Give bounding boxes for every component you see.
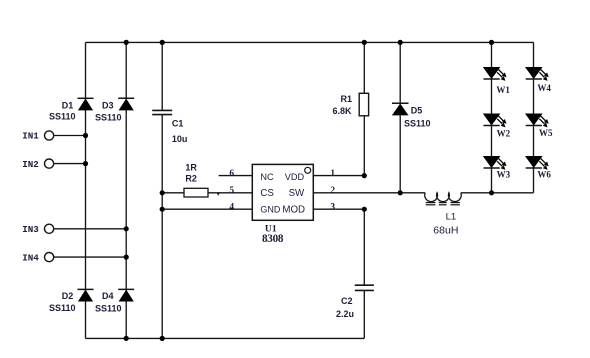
wire R1 column lower	[363, 116, 365, 176]
port IN3	[45, 224, 54, 233]
node top rail / D3	[124, 40, 129, 45]
svg-text:IN4: IN4	[22, 252, 39, 263]
node bottom rail / D4	[124, 336, 129, 341]
wire LED bottom link	[492, 192, 534, 194]
svg-text:2: 2	[330, 186, 335, 196]
svg-text:NC: NC	[260, 172, 274, 182]
svg-text:R2: R2	[185, 174, 197, 184]
node R2 / C1 column	[160, 190, 165, 195]
svg-text:SS110: SS110	[95, 304, 122, 314]
node IN4 / D4 column	[124, 255, 129, 260]
node SW / D5 / L1	[398, 190, 403, 195]
svg-text:R1: R1	[340, 94, 352, 104]
port IN4	[45, 253, 54, 262]
wire R1 column upper	[363, 42, 365, 93]
svg-text:W4: W4	[537, 83, 551, 93]
svg-text:GND: GND	[260, 205, 281, 215]
pin VDD indicator circle	[305, 167, 311, 173]
diode D1	[78, 98, 94, 110]
port IN1	[45, 131, 54, 140]
node top rail / C1	[160, 40, 165, 45]
svg-text:IN3: IN3	[22, 224, 39, 235]
LED W1	[483, 67, 507, 81]
wire pin5	[208, 192, 252, 194]
svg-text:D4: D4	[102, 291, 114, 301]
svg-text:D3: D3	[102, 101, 114, 111]
resistor R2	[184, 188, 208, 197]
wire C1 column upper	[161, 42, 163, 110]
svg-text:5: 5	[229, 186, 234, 196]
inductor L1	[425, 193, 462, 205]
diode D5	[392, 103, 409, 115]
svg-text:SS110: SS110	[95, 112, 122, 122]
svg-text:SS110: SS110	[49, 112, 76, 122]
node L1 / LED A	[489, 190, 494, 195]
op-amp U1 (IC 8308)	[252, 164, 313, 220]
port IN2	[45, 159, 54, 168]
svg-text:W3: W3	[497, 170, 511, 180]
wire C2 column lower	[363, 290, 365, 338]
svg-text:MOD: MOD	[282, 205, 305, 216]
svg-text:8308: 8308	[262, 233, 284, 245]
node top rail / D5	[398, 40, 403, 45]
wire L1 left lead	[400, 192, 425, 194]
svg-text:W5: W5	[539, 128, 553, 138]
svg-text:W1: W1	[496, 85, 510, 95]
node top rail / LED A	[489, 40, 494, 45]
svg-text:SW: SW	[289, 188, 305, 199]
wire D5 column lower	[399, 115, 401, 192]
wire IN1	[54, 135, 86, 137]
capacitor C1	[152, 110, 172, 114]
LED W4	[525, 67, 549, 81]
svg-text:68uH: 68uH	[433, 225, 458, 237]
wire pin3	[313, 208, 364, 210]
svg-text:SS110: SS110	[404, 118, 431, 128]
svg-text:IN2: IN2	[22, 159, 39, 170]
svg-text:IN1: IN1	[22, 131, 39, 142]
LED W6	[525, 156, 549, 170]
wire pin4	[162, 208, 252, 210]
node IN3 / D3 column	[124, 226, 129, 231]
LED W2	[483, 114, 507, 128]
wire bottom rail	[86, 337, 365, 339]
svg-text:4: 4	[229, 203, 234, 213]
svg-text:10u: 10u	[172, 134, 188, 144]
node pin4 / C1 column	[160, 207, 165, 212]
node pin3 / C2	[362, 207, 367, 212]
node top rail / R1	[362, 40, 367, 45]
resistor R1	[359, 93, 368, 116]
svg-text:6.8K: 6.8K	[332, 106, 352, 116]
svg-text:VDD: VDD	[285, 172, 305, 182]
LED W5	[525, 114, 549, 128]
node bottom rail / C1	[160, 336, 165, 341]
wire left bus	[85, 42, 87, 338]
LED W3	[483, 156, 507, 170]
wire R2 left	[162, 192, 184, 194]
svg-text:1R: 1R	[185, 162, 197, 172]
wire LED column B	[533, 42, 535, 192]
diode D4	[118, 289, 134, 301]
svg-text:C2: C2	[341, 296, 353, 306]
svg-text:6: 6	[229, 169, 234, 179]
wire pin6 stub	[219, 175, 253, 177]
wire D5 column upper	[399, 42, 401, 103]
svg-text:W6: W6	[537, 170, 551, 180]
wire pin1	[313, 175, 364, 177]
wire IN4	[54, 256, 127, 258]
wire L1 right lead	[461, 192, 492, 194]
wire C2 column upper	[363, 209, 365, 285]
svg-text:SS110: SS110	[49, 303, 76, 313]
wire LED column A	[491, 42, 493, 192]
svg-text:CS: CS	[260, 188, 274, 199]
wire D3/D4 column	[125, 42, 127, 338]
svg-text:D5: D5	[411, 105, 423, 115]
diode D2	[78, 289, 94, 301]
capacitor C2	[355, 285, 374, 290]
node pin1 / R1	[362, 173, 367, 178]
wire IN2	[54, 163, 86, 165]
svg-text:L1: L1	[446, 211, 457, 222]
wire top rail	[86, 41, 534, 43]
diode D3	[118, 98, 134, 110]
node IN2 / left bus	[83, 161, 88, 166]
svg-text:3: 3	[330, 203, 335, 213]
wire IN3	[54, 228, 127, 230]
svg-text:W2: W2	[497, 128, 511, 138]
wire C1 column lower	[161, 115, 163, 339]
wire pin2 SW	[313, 192, 400, 194]
svg-text:C1: C1	[172, 119, 184, 129]
svg-text:2.2u: 2.2u	[336, 309, 354, 319]
node pin5 tie speck	[217, 193, 220, 195]
node IN1 / left bus	[83, 133, 88, 138]
svg-text:D1: D1	[62, 101, 74, 111]
svg-text:1: 1	[330, 169, 335, 179]
svg-text:D2: D2	[62, 291, 74, 301]
